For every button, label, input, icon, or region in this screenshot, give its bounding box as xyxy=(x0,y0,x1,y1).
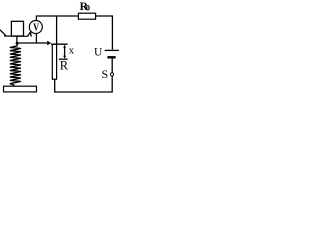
platform plate xyxy=(4,35,27,37)
battery U short plate xyxy=(107,56,115,58)
battery U long plate xyxy=(105,49,119,51)
svg-text:U: U xyxy=(94,47,103,59)
svg-text:S: S xyxy=(102,67,109,81)
rheostat top bar xyxy=(51,43,68,45)
wiper arrowhead xyxy=(47,41,51,46)
wiper wire from junction to arrow xyxy=(17,42,47,44)
svg-text:V: V xyxy=(33,22,39,33)
svg-text:x: x xyxy=(69,46,75,57)
svg-text:R: R xyxy=(60,59,69,73)
wire top feed into rheostat xyxy=(56,16,58,44)
tick mark lower bound xyxy=(59,58,68,60)
switch S contact circle xyxy=(110,73,113,76)
voltmeter U1 circle xyxy=(29,21,42,34)
voltmeter bottom lead xyxy=(35,34,37,43)
wire switch to bottom wire to rheostat bottom xyxy=(55,76,112,92)
wire R0 to right side down to battery xyxy=(96,16,112,50)
plate right lip xyxy=(27,32,31,37)
spring xyxy=(10,44,20,85)
arrowhead down of x measure xyxy=(63,56,66,59)
junction dot xyxy=(16,42,19,45)
wire top left from voltmeter to R0 xyxy=(36,16,78,20)
plate left slash xyxy=(0,30,6,36)
wire battery to switch xyxy=(111,59,113,73)
arrowhead up of x measure xyxy=(63,45,66,48)
base pedestal xyxy=(4,86,37,92)
rheostat R body xyxy=(52,44,56,79)
svg-text:0: 0 xyxy=(86,3,90,13)
measure double arrow line xyxy=(64,46,66,57)
resistor R0 xyxy=(78,13,95,19)
box weight xyxy=(11,21,23,36)
rod below plate xyxy=(16,37,18,43)
